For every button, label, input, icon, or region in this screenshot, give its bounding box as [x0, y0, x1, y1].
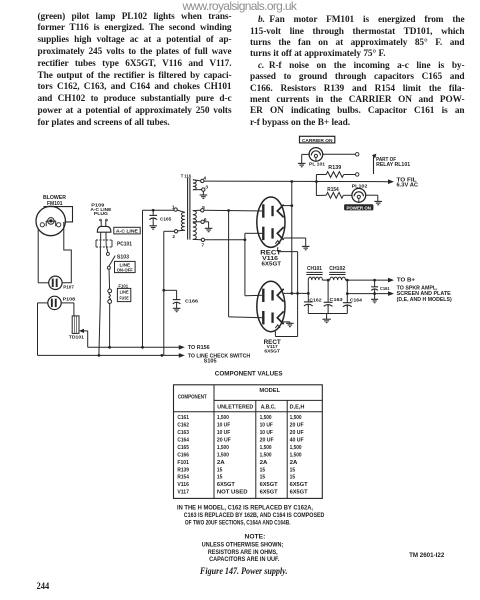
- svg-text:C161: C161: [380, 286, 390, 291]
- svg-text:C163: C163: [177, 430, 189, 436]
- svg-text:10 UF: 10 UF: [260, 430, 274, 436]
- svg-text:POWER ON: POWER ON: [346, 205, 371, 211]
- svg-text:(D,E, AND H MODELS): (D,E, AND H MODELS): [397, 297, 452, 303]
- svg-text:Figure 147. Power supply.: Figure 147. Power supply.: [199, 566, 287, 576]
- svg-text:D,E,H: D,E,H: [290, 404, 305, 410]
- svg-text:CH101: CH101: [307, 266, 322, 272]
- svg-text:V117: V117: [177, 490, 189, 496]
- svg-text:NOT USED: NOT USED: [217, 490, 248, 496]
- svg-text:15: 15: [290, 475, 296, 481]
- svg-text:C162: C162: [309, 297, 322, 303]
- svg-text:FM101: FM101: [47, 201, 63, 207]
- svg-text:1,500: 1,500: [260, 452, 272, 458]
- svg-text:10 UF: 10 UF: [260, 423, 274, 429]
- svg-text:UNLETTERED: UNLETTERED: [217, 404, 253, 410]
- svg-text:2: 2: [172, 234, 175, 240]
- svg-text:TD101: TD101: [69, 335, 84, 341]
- svg-text:1,500: 1,500: [290, 445, 302, 451]
- svg-text:15: 15: [260, 475, 266, 481]
- svg-text:PC101: PC101: [117, 241, 132, 247]
- svg-text:TO B+: TO B+: [397, 277, 416, 283]
- svg-text:1,500: 1,500: [217, 452, 229, 458]
- svg-text:6.3V AC: 6.3V AC: [397, 183, 419, 189]
- svg-text:3: 3: [205, 185, 208, 191]
- svg-text:C165: C165: [177, 445, 189, 451]
- svg-text:V116: V116: [177, 482, 189, 488]
- svg-text:R154: R154: [327, 187, 339, 193]
- svg-text:6X5GT: 6X5GT: [260, 490, 279, 496]
- svg-text:S103: S103: [117, 254, 129, 260]
- svg-text:A-C LINE: A-C LINE: [116, 229, 138, 234]
- svg-text:S105: S105: [204, 359, 217, 365]
- svg-text:2A: 2A: [217, 460, 225, 466]
- svg-text:C166: C166: [177, 452, 189, 458]
- svg-text:40 UF: 40 UF: [290, 437, 305, 443]
- svg-text:TO R156: TO R156: [188, 345, 210, 351]
- svg-text:7: 7: [202, 243, 205, 249]
- svg-text:10 UF: 10 UF: [217, 430, 231, 436]
- svg-text:2A: 2A: [290, 460, 298, 466]
- svg-text:P107: P107: [63, 285, 74, 291]
- svg-text:ON-OFF: ON-OFF: [117, 268, 133, 273]
- svg-text:1,500: 1,500: [217, 415, 229, 421]
- svg-text:UNLESS OTHERWISE SHOWN;: UNLESS OTHERWISE SHOWN;: [202, 543, 283, 549]
- svg-text:1,500: 1,500: [290, 415, 302, 421]
- svg-text:NOTE:: NOTE:: [245, 535, 266, 541]
- svg-text:1,500: 1,500: [260, 445, 272, 451]
- svg-text:C163 IS REPLACED BY 162B, AND: C163 IS REPLACED BY 162B, AND C164 IS CO…: [184, 513, 325, 519]
- svg-text:RELAY RL101: RELAY RL101: [376, 162, 410, 168]
- svg-text:PL 101: PL 101: [309, 161, 325, 167]
- svg-text:6X5GT: 6X5GT: [264, 349, 280, 354]
- svg-text:C163: C163: [330, 297, 343, 303]
- svg-text:15: 15: [290, 467, 296, 473]
- svg-text:R154: R154: [177, 475, 189, 481]
- svg-text:6X5GT: 6X5GT: [262, 261, 282, 267]
- svg-text:RESISTORS ARE IN OHMS,: RESISTORS ARE IN OHMS,: [208, 550, 278, 556]
- svg-text:CH102: CH102: [329, 266, 345, 272]
- svg-text:C162: C162: [177, 423, 189, 429]
- svg-text:C164: C164: [177, 437, 189, 443]
- svg-text:SCREEN AND PLATE: SCREEN AND PLATE: [397, 291, 452, 297]
- svg-text:6X5GT: 6X5GT: [290, 482, 309, 488]
- svg-text:C164: C164: [350, 297, 362, 303]
- svg-text:R139: R139: [177, 467, 189, 473]
- svg-text:6X5GT: 6X5GT: [260, 482, 279, 488]
- svg-text:R139: R139: [328, 165, 341, 171]
- svg-text:C165: C165: [160, 216, 172, 222]
- svg-text:FUSE: FUSE: [119, 296, 128, 301]
- svg-text:COMPONENT VALUES: COMPONENT VALUES: [215, 370, 283, 377]
- svg-text:6X5GT: 6X5GT: [217, 482, 236, 488]
- svg-text:COMPONENT: COMPONENT: [178, 394, 207, 400]
- svg-text:1,500: 1,500: [260, 415, 272, 421]
- svg-text:2A: 2A: [260, 460, 268, 466]
- svg-text:20 UF: 20 UF: [217, 437, 232, 443]
- svg-text:10 UF: 10 UF: [217, 423, 231, 429]
- svg-text:1,500: 1,500: [217, 445, 229, 451]
- svg-text:20 UF: 20 UF: [260, 437, 275, 443]
- svg-text:20 UF: 20 UF: [290, 423, 305, 429]
- svg-text:15: 15: [217, 467, 223, 473]
- svg-text:F101: F101: [177, 460, 189, 466]
- svg-text:20 UF: 20 UF: [290, 430, 305, 436]
- svg-text:C161: C161: [177, 415, 189, 421]
- svg-text:1,500: 1,500: [290, 452, 302, 458]
- svg-text:MODEL: MODEL: [259, 388, 280, 394]
- svg-text:P108: P108: [63, 296, 76, 302]
- svg-text:15: 15: [217, 475, 223, 481]
- svg-text:OF TWO 20UF SECTIONS, C164A A: OF TWO 20UF SECTIONS, C164A AND C164B.: [185, 521, 291, 527]
- svg-text:PL102: PL102: [352, 183, 368, 189]
- svg-text:TM 2601-I22: TM 2601-I22: [409, 553, 445, 559]
- svg-text:LINE: LINE: [120, 290, 129, 295]
- svg-text:A,B,C,: A,B,C,: [261, 404, 276, 410]
- svg-text:PLUG: PLUG: [94, 211, 109, 216]
- svg-text:1: 1: [172, 204, 175, 210]
- svg-text:CAPACITORS ARE IN UUF.: CAPACITORS ARE IN UUF.: [209, 557, 280, 563]
- svg-text:TO LINE CHECK SWITCH: TO LINE CHECK SWITCH: [188, 354, 250, 360]
- svg-text:CARRIER ON: CARRIER ON: [302, 138, 333, 144]
- svg-text:IN THE H MODEL, C162 IS REPLAC: IN THE H MODEL, C162 IS REPLACED BY C162…: [177, 505, 313, 511]
- svg-text:C166: C166: [185, 299, 198, 305]
- svg-text:15: 15: [260, 467, 266, 473]
- svg-text:6X5GT: 6X5GT: [290, 490, 309, 496]
- svg-text:244: 244: [37, 582, 50, 592]
